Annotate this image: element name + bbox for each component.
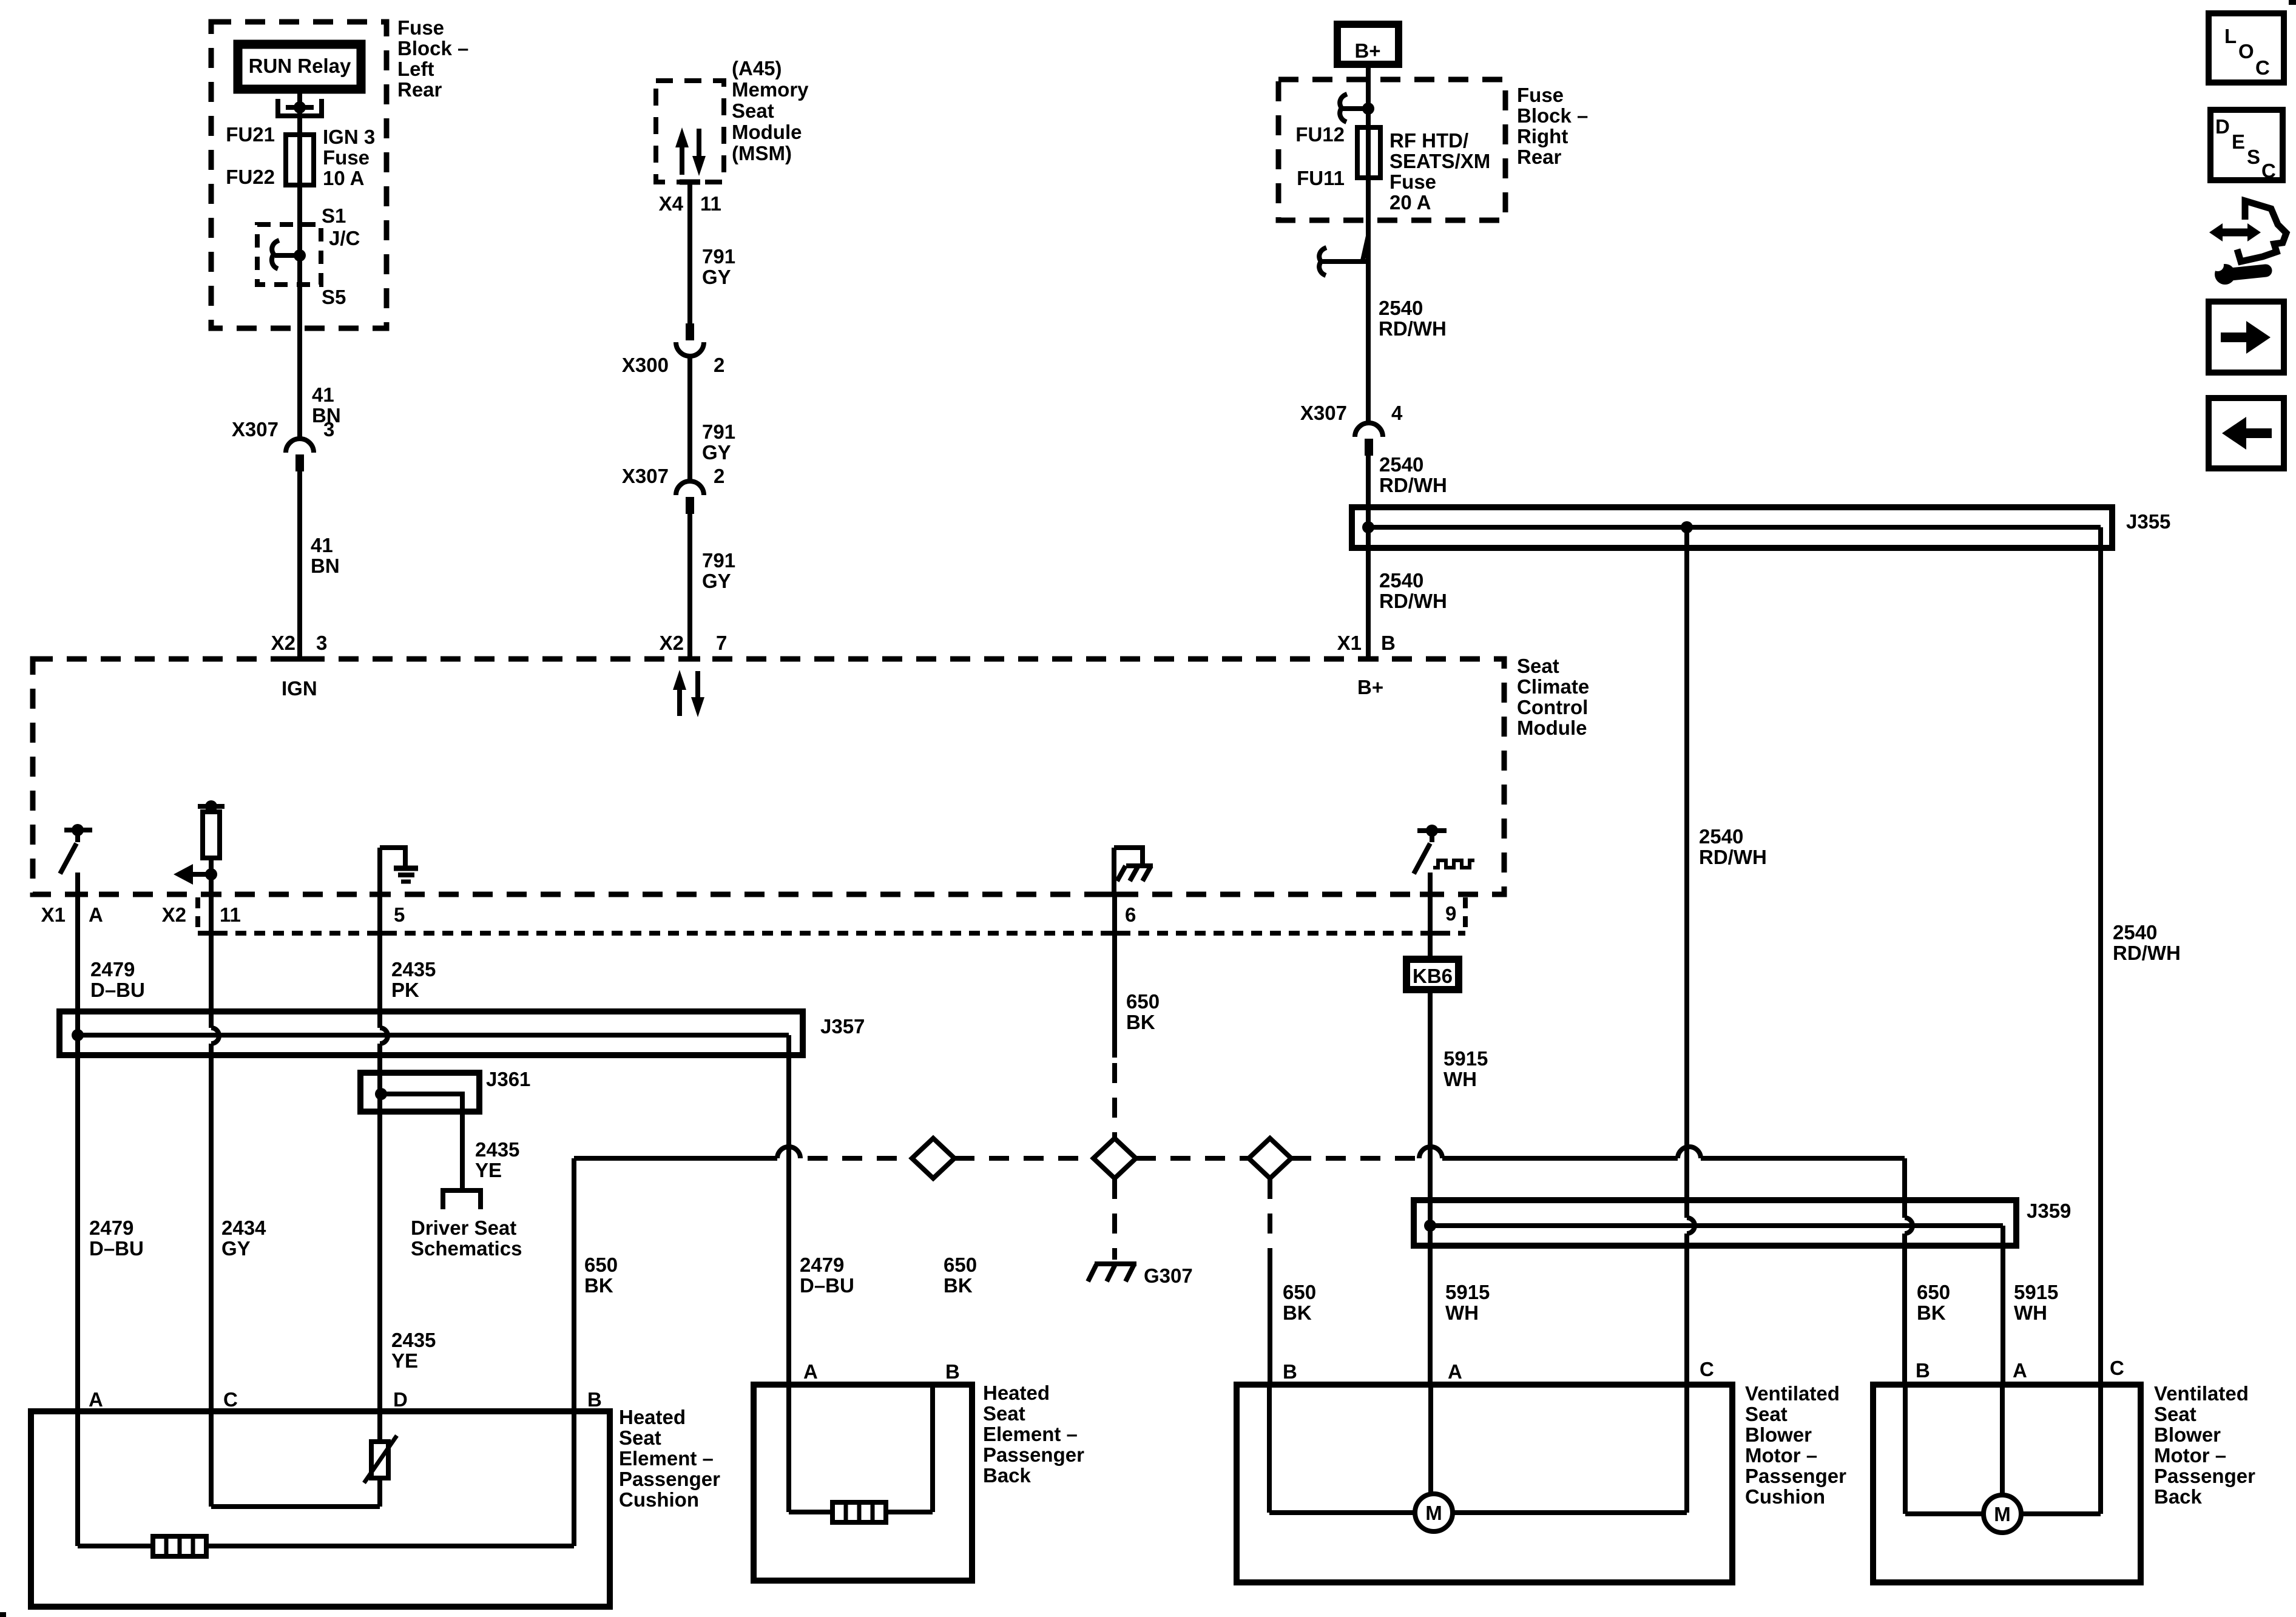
junction connector J/C dashed box	[257, 224, 321, 285]
connector X307 pin 2	[622, 465, 724, 514]
svg-text:5: 5	[394, 903, 405, 926]
svg-text:Seat: Seat	[983, 1402, 1025, 1425]
ground distribution diamond 1	[912, 1138, 954, 1178]
wire pin A inside blower back	[2000, 1385, 2005, 1495]
chassis ground symbol pin 6 in module	[1114, 848, 1153, 894]
svg-text:Seat: Seat	[1517, 655, 1559, 677]
svg-text:FU11: FU11	[1297, 167, 1345, 189]
svg-text:X307: X307	[622, 465, 669, 487]
ground G307 chassis symbol	[1088, 1264, 1136, 1281]
svg-text:G307: G307	[1144, 1264, 1193, 1287]
svg-text:Climate: Climate	[1517, 675, 1589, 698]
svg-text:GY: GY	[221, 1237, 251, 1260]
svg-text:650: 650	[584, 1254, 618, 1276]
svg-text:5915: 5915	[1445, 1281, 1490, 1303]
B+ power box	[1337, 24, 1399, 64]
wire 5915 WH from J359 to blower back A	[2001, 1226, 2005, 1385]
label (A45) Memory Seat Module (MSM)	[732, 57, 809, 164]
svg-text:Passenger: Passenger	[983, 1443, 1084, 1466]
svg-text:FU22: FU22	[226, 166, 275, 188]
label wire 2540 RD/WH below J355	[1379, 569, 1447, 612]
ventilated seat blower motor passenger back box	[1873, 1385, 2141, 1582]
label IGN 3 Fuse 10 A	[323, 126, 375, 189]
label wire 2540 RD/WH middle branch	[1699, 825, 1767, 868]
svg-text:A: A	[1448, 1360, 1462, 1383]
ground distribution diamond 2	[1093, 1138, 1136, 1178]
clip splice upper	[1340, 94, 1374, 122]
wire pin A inside blower cushion	[1428, 1385, 1433, 1494]
label wire 2434 GY to cushion element	[221, 1217, 266, 1260]
svg-text:Heated: Heated	[619, 1406, 686, 1428]
svg-text:X2: X2	[271, 632, 295, 654]
svg-text:C: C	[1700, 1358, 1714, 1380]
hop over 5915 wire	[1419, 1147, 1442, 1158]
svg-text:GY: GY	[702, 570, 731, 592]
label wire 5915 WH right branch	[2014, 1281, 2058, 1324]
fuse block right rear dashed box	[1278, 79, 1505, 220]
wire 2435 YE/PK pin 5 with hop over J357 line	[380, 894, 388, 1440]
wire relay output	[297, 93, 302, 185]
arrow branch pin 11	[174, 864, 217, 885]
svg-text:BK: BK	[1126, 1011, 1155, 1033]
svg-text:WH: WH	[1443, 1068, 1477, 1090]
svg-text:IGN 3: IGN 3	[323, 126, 375, 148]
svg-text:C: C	[223, 1388, 238, 1411]
svg-text:Seat: Seat	[732, 100, 774, 122]
svg-text:Back: Back	[983, 1464, 1032, 1487]
svg-text:C: C	[2110, 1357, 2124, 1379]
label wire 650 BK blower back	[1917, 1281, 1950, 1324]
connector X300 pin 2	[622, 323, 724, 376]
label wire 2479 D-BU to cushion element	[89, 1217, 144, 1260]
wire pin B inside cushion element	[572, 1411, 576, 1546]
J361 inner line and junction dot	[375, 1088, 462, 1188]
svg-text:D–BU: D–BU	[800, 1274, 854, 1297]
svg-text:Memory: Memory	[732, 78, 809, 101]
label RF HTD/SEATS/XM Fuse 20 A	[1389, 129, 1490, 214]
wire pin B inside blower cushion	[1269, 1385, 1415, 1513]
svg-text:3: 3	[323, 418, 334, 441]
svg-text:Fuse: Fuse	[323, 146, 370, 169]
fuse FU12/FU11 RF HTD/SEATS/XM 20A	[1357, 127, 1380, 178]
pin X1 B labels at module	[1337, 632, 1396, 654]
splice pack J361 box	[360, 1073, 479, 1112]
svg-text:Cushion: Cushion	[1745, 1485, 1825, 1508]
svg-text:A: A	[2013, 1359, 2027, 1382]
svg-text:BK: BK	[584, 1274, 613, 1297]
svg-text:Rear: Rear	[1517, 146, 1562, 168]
svg-text:2540: 2540	[1379, 453, 1423, 476]
label ventilated seat blower motor passenger cushion	[1745, 1382, 1846, 1508]
svg-text:D–BU: D–BU	[89, 1237, 144, 1260]
wire 791 GY from MSM X4-11	[687, 182, 692, 323]
diagnostic icon double arrow	[2209, 223, 2261, 241]
svg-text:650: 650	[1283, 1281, 1316, 1303]
corner mark top right	[2289, 0, 2296, 5]
svg-text:RD/WH: RD/WH	[1699, 846, 1767, 868]
pin letters A C D B	[89, 1388, 602, 1411]
svg-text:Seat: Seat	[2154, 1403, 2196, 1425]
svg-text:Schematics: Schematics	[411, 1237, 522, 1260]
svg-text:3: 3	[316, 632, 327, 654]
svg-text:Element –: Element –	[619, 1447, 714, 1470]
dashed ground line segment 3	[1136, 1156, 1249, 1161]
wire pin B inside blower back	[1905, 1385, 1984, 1514]
diagnostic icon wrench	[2212, 259, 2266, 285]
svg-text:D: D	[2215, 115, 2230, 138]
junction dot J355 at B+ feed	[1362, 521, 1374, 533]
svg-text:2540: 2540	[1379, 297, 1423, 319]
svg-text:6: 6	[1125, 903, 1136, 926]
label wire 2540 RD/WH right branch	[2113, 921, 2181, 964]
svg-text:2479: 2479	[90, 958, 135, 981]
wire 650 BK pin 6 solid part	[1112, 894, 1117, 1058]
svg-text:RD/WH: RD/WH	[2113, 942, 2181, 964]
svg-text:M: M	[1994, 1503, 2011, 1525]
wire 41 BN from fuse to X307	[297, 185, 302, 439]
J357 bus inner line	[78, 1033, 789, 1038]
svg-text:2540: 2540	[2113, 921, 2157, 944]
svg-text:Fuse: Fuse	[1389, 170, 1436, 193]
svg-text:Passenger: Passenger	[1745, 1465, 1846, 1487]
svg-text:Fuse: Fuse	[397, 16, 444, 39]
svg-text:Passenger: Passenger	[2154, 1465, 2255, 1487]
wire pin C inside blower cushion	[1453, 1385, 1687, 1513]
wire 5915 WH pin 9 to KB6	[1428, 894, 1433, 956]
svg-text:Block –: Block –	[397, 37, 468, 59]
wire 791 GY lower	[687, 514, 692, 659]
svg-text:X2: X2	[162, 903, 186, 926]
solid ground line segment 6	[1701, 1156, 1905, 1161]
svg-text:D–BU: D–BU	[90, 979, 145, 1001]
switch pin A in module	[60, 824, 92, 894]
svg-text:A: A	[803, 1360, 818, 1383]
fuse block left rear dashed box	[211, 22, 387, 328]
pin 3 edge tick	[289, 657, 310, 662]
svg-text:M: M	[1425, 1502, 1442, 1524]
J359 bus inner line	[1430, 1223, 2003, 1228]
wire 2540 RD/WH from J355 to blower back C	[2098, 527, 2103, 1385]
svg-text:2: 2	[714, 465, 724, 487]
label Driver Seat Schematics	[411, 1217, 522, 1260]
svg-text:X300: X300	[622, 354, 669, 376]
seat climate control module label	[1517, 655, 1589, 739]
heated seat element passenger cushion box	[31, 1411, 610, 1607]
resistor pin 11 in module	[198, 800, 225, 894]
svg-text:5915: 5915	[2014, 1281, 2058, 1303]
svg-text:650: 650	[944, 1254, 977, 1276]
wire 2479 D-BU from J357 to heated seat back A	[786, 1035, 791, 1385]
wire 2540 RD/WH from J355 to blower cushion C with hop at J359	[1687, 527, 1695, 1385]
svg-text:Seat: Seat	[619, 1426, 661, 1449]
svg-text:RD/WH: RD/WH	[1379, 474, 1447, 496]
left arrow icon box	[2209, 398, 2284, 468]
svg-text:FU12: FU12	[1295, 123, 1345, 146]
label wire 5915 WH lower	[1445, 1281, 1490, 1324]
svg-text:11: 11	[700, 192, 721, 215]
pin letters B A C	[1283, 1358, 1714, 1383]
pin labels X1 A X2 11 5 6 9	[41, 902, 1457, 926]
svg-text:BK: BK	[1917, 1301, 1946, 1324]
label wire 650 BK pin 6	[1126, 990, 1160, 1033]
memory seat module A45 dashed box	[656, 81, 724, 182]
svg-text:RUN Relay: RUN Relay	[249, 55, 351, 77]
connector X307 pin 3	[232, 418, 334, 471]
seat climate control module dashed box	[33, 659, 1504, 894]
svg-text:Fuse: Fuse	[1517, 84, 1564, 106]
svg-text:YE: YE	[391, 1349, 418, 1372]
svg-text:9: 9	[1445, 902, 1456, 925]
wire pin C inside cushion element	[211, 1411, 380, 1507]
J355 bus inner line	[1368, 525, 2101, 530]
svg-text:10 A: 10 A	[323, 167, 364, 189]
svg-text:Heated: Heated	[983, 1382, 1050, 1404]
svg-text:Rear: Rear	[397, 78, 442, 101]
svg-text:BK: BK	[1283, 1301, 1312, 1324]
svg-text:B: B	[1381, 632, 1396, 654]
svg-text:Blower: Blower	[2154, 1423, 2221, 1446]
svg-text:J/C: J/C	[329, 227, 360, 249]
svg-text:4: 4	[1391, 402, 1403, 424]
junction dot J357 at pin A wire	[72, 1029, 84, 1041]
svg-text:B: B	[945, 1360, 960, 1383]
ground symbol pin 5 in module	[380, 848, 418, 894]
svg-text:11: 11	[220, 903, 241, 926]
svg-text:Cushion: Cushion	[619, 1488, 699, 1511]
splice pack J357 box	[59, 1011, 803, 1055]
wire 650 BK pin 6 dashed part	[1112, 1063, 1117, 1138]
svg-text:X307: X307	[1300, 402, 1347, 424]
pin X4 11 labels	[659, 192, 721, 215]
svg-text:S5: S5	[322, 286, 346, 308]
svg-text:BK: BK	[944, 1274, 973, 1297]
label wire 2435 PK	[391, 958, 436, 1001]
svg-text:S: S	[2247, 146, 2260, 168]
connector X2 dotted boundary	[198, 897, 1465, 933]
label wire 5915 WH upper	[1443, 1047, 1488, 1090]
svg-text:J361: J361	[486, 1068, 530, 1090]
dashed drop 650 BK to blower cushion B	[1268, 1179, 1272, 1265]
label wire 2435 YE	[475, 1138, 519, 1181]
thermistor sensor in cushion element	[364, 1411, 397, 1507]
dashed ground line segment 2	[954, 1156, 1094, 1161]
svg-text:Ventilated: Ventilated	[1745, 1382, 1840, 1405]
pin 7 edge tick	[680, 657, 700, 662]
svg-text:(A45): (A45)	[732, 57, 782, 79]
fuse block right rear label	[1517, 84, 1588, 168]
wire 650 BK heated cushion B to ground line	[574, 1158, 777, 1411]
svg-text:2479: 2479	[89, 1217, 133, 1239]
svg-text:GY: GY	[702, 266, 731, 288]
svg-text:41: 41	[311, 534, 333, 556]
label wire 791 GY middle	[702, 420, 735, 464]
svg-text:Right: Right	[1517, 125, 1568, 147]
svg-text:X1: X1	[41, 903, 66, 926]
wire 5915 WH from KB6 to blower cushion A	[1428, 993, 1433, 1385]
svg-text:C: C	[2261, 160, 2276, 182]
wire pin A inside back element	[789, 1385, 933, 1512]
connector X307 pin 4	[1300, 402, 1403, 456]
svg-text:Blower: Blower	[1745, 1423, 1812, 1446]
hop over 2540 wire	[1678, 1147, 1701, 1158]
heater element back	[832, 1502, 886, 1522]
wire pin A inside cushion element	[78, 1411, 574, 1546]
wire B+ into fuse block	[1366, 68, 1371, 422]
svg-text:Control: Control	[1517, 696, 1588, 718]
label wire 791 GY lower	[702, 549, 735, 592]
relay pin cup bracket	[278, 99, 322, 116]
svg-text:FU21: FU21	[226, 123, 275, 146]
wire 791 GY middle	[687, 356, 692, 481]
diagnostic icon jagged outline	[2237, 201, 2286, 262]
label wire 2435 YE lower	[391, 1329, 436, 1372]
motor M blower cushion	[1415, 1494, 1453, 1531]
svg-text:791: 791	[702, 245, 735, 268]
svg-text:YE: YE	[475, 1159, 502, 1181]
svg-text:791: 791	[702, 420, 735, 443]
svg-text:Module: Module	[1517, 717, 1587, 739]
ventilated seat blower motor passenger cushion box	[1237, 1385, 1732, 1582]
svg-text:2434: 2434	[221, 1217, 266, 1239]
svg-text:20 A: 20 A	[1389, 191, 1431, 214]
splice pack J359 box	[1414, 1200, 2016, 1246]
label wire 2479 D-BU upper	[90, 958, 145, 1001]
svg-text:WH: WH	[2014, 1301, 2047, 1324]
svg-text:X2: X2	[660, 632, 684, 654]
pin B edge tick	[1358, 657, 1379, 662]
wire 2540 RD/WH to module pin B	[1366, 456, 1371, 659]
svg-text:L: L	[2224, 25, 2237, 47]
svg-text:Block –: Block –	[1517, 104, 1588, 127]
svg-text:BN: BN	[311, 555, 340, 577]
heated seat element passenger back box	[754, 1385, 972, 1581]
down arrow in module pin 7	[691, 671, 704, 717]
svg-text:X4: X4	[659, 192, 684, 215]
dashed drop to G307	[1112, 1179, 1117, 1260]
label heated seat element passenger back	[983, 1382, 1084, 1487]
svg-text:B: B	[1916, 1359, 1930, 1382]
down arrow in MSM	[692, 129, 706, 176]
motor M blower back	[1984, 1495, 2021, 1533]
svg-text:RD/WH: RD/WH	[1379, 590, 1447, 612]
svg-text:2540: 2540	[1699, 825, 1743, 848]
LOC icon box	[2209, 13, 2284, 83]
label wire 2479 D-BU to back element	[800, 1254, 854, 1297]
svg-text:2435: 2435	[391, 1329, 436, 1351]
label wire 650 BK to back element	[944, 1254, 977, 1297]
wire 2479 D-BU pin A to J357 to heated seat cushion A	[75, 894, 80, 1411]
svg-text:B: B	[587, 1388, 602, 1411]
wire pin C inside blower back	[2021, 1385, 2101, 1514]
label heated seat element passenger cushion	[619, 1406, 720, 1511]
svg-text:791: 791	[702, 549, 735, 572]
wire 2434 GY pin 11 with hop over J357 line	[211, 894, 219, 1411]
rheostat switch pin 9 in module	[1414, 825, 1474, 894]
svg-text:2479: 2479	[800, 1254, 844, 1276]
svg-text:RD/WH: RD/WH	[1379, 317, 1447, 340]
svg-text:J359: J359	[2027, 1200, 2071, 1222]
svg-text:SEATS/XM: SEATS/XM	[1389, 150, 1490, 172]
svg-text:Back: Back	[2154, 1485, 2203, 1508]
svg-text:J355: J355	[2126, 510, 2170, 533]
junction dot J355 at blower feed	[1681, 521, 1693, 533]
ground distribution diamond 3	[1249, 1138, 1291, 1178]
label wire 41 BN	[312, 383, 341, 427]
clip splice lower with whisker	[1319, 236, 1368, 275]
svg-text:PK: PK	[391, 979, 419, 1001]
svg-text:A: A	[89, 1388, 103, 1411]
svg-text:41: 41	[312, 383, 334, 406]
hop over 2479 wire	[777, 1147, 800, 1158]
wire pin B inside back element	[930, 1385, 935, 1512]
svg-text:7: 7	[716, 632, 727, 654]
svg-text:Driver Seat: Driver Seat	[411, 1217, 516, 1239]
up arrow in MSM	[675, 127, 689, 175]
fuse FU21/FU22 IGN 3 Fuse 10A	[286, 135, 314, 185]
DESC icon box	[2210, 110, 2283, 182]
dashed ground distribution line	[808, 1156, 913, 1161]
svg-text:5915: 5915	[1443, 1047, 1488, 1070]
splice clip in J/C	[272, 240, 306, 269]
fuse block left rear label	[397, 16, 468, 101]
svg-text:O: O	[2238, 40, 2254, 62]
label wire 2540 RD/WH above X307	[1379, 297, 1447, 340]
pin X2 3 labels at module	[271, 632, 328, 654]
heater element cushion	[153, 1536, 206, 1556]
svg-text:2435: 2435	[475, 1138, 519, 1161]
svg-text:J357: J357	[820, 1015, 865, 1038]
svg-text:GY: GY	[702, 441, 731, 464]
svg-text:B+: B+	[1357, 676, 1383, 698]
svg-text:WH: WH	[1445, 1301, 1479, 1324]
svg-text:650: 650	[1126, 990, 1160, 1013]
module bottom edge pin ticks	[67, 892, 1440, 897]
svg-text:D: D	[393, 1388, 408, 1411]
svg-text:Seat: Seat	[1745, 1403, 1788, 1425]
svg-text:2: 2	[714, 354, 724, 376]
junction dot J359 at 5915 wire	[1424, 1220, 1436, 1232]
pin X2 7 labels at module	[660, 632, 728, 654]
svg-text:C: C	[2255, 56, 2270, 79]
svg-text:X1: X1	[1337, 632, 1362, 654]
up arrow in module pin 7	[673, 670, 686, 716]
wire 650 BK to blower cushion B	[1268, 1265, 1272, 1385]
pin letters B A C	[1916, 1357, 2124, 1382]
label wire 650 BK blower cushion	[1283, 1281, 1316, 1324]
svg-text:2540: 2540	[1379, 569, 1423, 592]
svg-text:IGN: IGN	[282, 677, 317, 700]
svg-text:650: 650	[1917, 1281, 1950, 1303]
svg-text:E: E	[2232, 130, 2245, 153]
svg-text:2435: 2435	[391, 958, 436, 981]
wire 650 BK to blower back B with hop at J359	[1905, 1158, 1913, 1385]
svg-text:Module: Module	[732, 121, 802, 143]
svg-text:Passenger: Passenger	[619, 1468, 720, 1490]
option box KB6	[1406, 959, 1459, 990]
svg-text:B+: B+	[1354, 39, 1380, 62]
label ventilated seat blower motor passenger back	[2154, 1382, 2255, 1508]
svg-text:Element –: Element –	[983, 1423, 1078, 1445]
splice pack J355 box	[1352, 507, 2112, 548]
right arrow icon box	[2209, 302, 2284, 373]
svg-text:Motor –: Motor –	[2154, 1444, 2226, 1467]
label wire 650 BK to cushion element	[584, 1254, 618, 1297]
label wire 791 GY upper	[702, 245, 735, 288]
dashed ground line segment 4	[1291, 1156, 1419, 1161]
svg-text:Left: Left	[397, 58, 434, 80]
svg-text:A: A	[89, 903, 103, 926]
period mark bottom left	[0, 1612, 6, 1617]
